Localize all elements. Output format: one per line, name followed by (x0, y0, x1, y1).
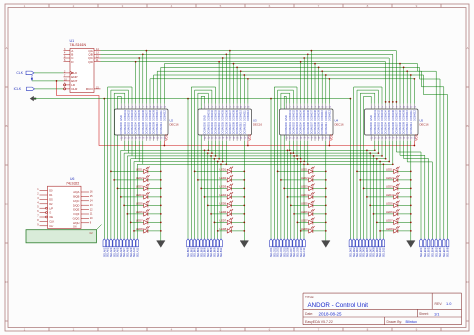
svg-text:DCBA0006: DCBA0006 (392, 121, 395, 134)
svg-text:GND: GND (119, 115, 123, 121)
svg-text:LED5: LED5 (136, 202, 143, 206)
LED LED4 (120, 192, 162, 199)
LED LED8 (133, 226, 162, 233)
svg-text:LED3: LED3 (136, 185, 143, 189)
svg-text:LED4: LED4 (136, 193, 143, 197)
svg-text:DCBA0007: DCBA0007 (229, 121, 232, 134)
svg-text:DS: DS (49, 198, 53, 202)
svg-text:DCBA005: DCBA005 (388, 110, 391, 121)
svg-text:DCBA0002: DCBA0002 (377, 121, 380, 134)
svg-text:LED4: LED4 (386, 193, 393, 197)
svg-text:LED7: LED7 (386, 219, 393, 223)
svg-text:GND: GND (203, 115, 207, 121)
ground group 2 (240, 241, 249, 248)
decoder IC U2 DEC16 (115, 104, 179, 141)
svg-text:DCBA0009: DCBA0009 (236, 121, 239, 134)
LED LED12 (204, 192, 246, 199)
svg-text:DCBA011: DCBA011 (410, 110, 413, 121)
LED LED24 (300, 226, 327, 233)
svg-text:DCBA005: DCBA005 (138, 110, 141, 121)
wire harness group 3 (271, 87, 326, 241)
svg-text:SELE05: SELE05 (434, 247, 438, 257)
decoder IC U3 DEC16 (198, 104, 262, 141)
svg-text:SELC11: SELC11 (302, 247, 306, 257)
wire stub at resistor block (96, 225, 101, 230)
LED LED15 (214, 218, 246, 225)
svg-text:LED7: LED7 (219, 219, 226, 223)
svg-text:DCBA0000: DCBA0000 (204, 121, 207, 134)
svg-text:B: B (466, 124, 468, 128)
svg-text:LED8: LED8 (136, 227, 143, 231)
svg-text:DCBA009: DCBA009 (153, 110, 156, 121)
power flag +5V (30, 75, 34, 81)
svg-text:DCBA0001: DCBA0001 (374, 121, 377, 134)
decoder IC U4 DEC16 (280, 104, 344, 141)
svg-text:DCBA0010: DCBA0010 (406, 121, 409, 134)
svg-text:DCBA012: DCBA012 (163, 110, 166, 121)
LED LED16 (217, 226, 245, 233)
svg-text:LED5: LED5 (301, 202, 308, 206)
svg-text:H/QH: H/QH (73, 221, 80, 225)
svg-text:DCBA0008: DCBA0008 (399, 121, 402, 134)
svg-text:DCBA0011: DCBA0011 (325, 122, 328, 135)
svg-text:A: A (5, 46, 7, 50)
LED LED23 (297, 218, 327, 225)
svg-text:DCBA008: DCBA008 (314, 110, 317, 121)
title block (303, 293, 462, 325)
svg-text:DCBA0004: DCBA0004 (218, 121, 221, 134)
svg-text:DCBA0002: DCBA0002 (292, 121, 295, 134)
net flag ICLK (14, 87, 35, 91)
svg-text:LED1: LED1 (301, 168, 308, 172)
svg-text:DCBA002: DCBA002 (377, 110, 380, 121)
svg-text:DCBA0002: DCBA0002 (211, 121, 214, 134)
svg-text:Drawn By:: Drawn By: (387, 320, 403, 324)
svg-text:LED2: LED2 (386, 176, 393, 180)
svg-text:SELE03: SELE03 (427, 247, 431, 257)
svg-text:LED6: LED6 (301, 210, 308, 214)
net flags group 4 (349, 239, 386, 257)
port arrow IN (30, 96, 36, 101)
svg-text:DCBA0005: DCBA0005 (303, 121, 306, 134)
svg-text:D2: D2 (49, 202, 53, 206)
LED LED6 (127, 209, 162, 216)
svg-text:DCBA003: DCBA003 (131, 110, 134, 121)
LED LED29 (369, 201, 411, 208)
svg-text:LED5: LED5 (219, 202, 226, 206)
svg-text:G/QG: G/QG (73, 217, 80, 221)
svg-text:DCBA0009: DCBA0009 (153, 121, 156, 134)
svg-text:D/QD: D/QD (73, 203, 80, 207)
svg-text:U6: U6 (70, 177, 74, 181)
svg-text:DCBA0000: DCBA0000 (120, 121, 123, 134)
svg-text:DCBA012: DCBA012 (328, 110, 331, 121)
svg-text:VCC: VCC (414, 133, 418, 140)
LED LED14 (210, 209, 245, 216)
svg-text:DCBA002: DCBA002 (127, 110, 130, 121)
decoder IC U5 DEC16 (365, 104, 429, 141)
svg-text:VCC: VCC (164, 133, 168, 140)
svg-text:DCBA001: DCBA001 (124, 110, 127, 121)
svg-text:LED2: LED2 (219, 176, 226, 180)
svg-text:DCBA011: DCBA011 (160, 110, 163, 121)
svg-text:A: A (466, 46, 468, 50)
LED LED32 (379, 226, 411, 233)
LED LED13 (207, 201, 245, 208)
wire harness group 1 (104, 87, 161, 241)
svg-text:F/QF: F/QF (73, 212, 79, 216)
svg-text:DCBA0002: DCBA0002 (127, 121, 130, 134)
svg-text:DCBA003: DCBA003 (296, 110, 299, 121)
wire enable line from port (34, 98, 351, 100)
wire chained output band (121, 141, 394, 165)
svg-text:DCBA0000: DCBA0000 (370, 121, 373, 134)
svg-text:DCBA0006: DCBA0006 (142, 121, 145, 134)
svg-text:SELB11: SELB11 (219, 247, 223, 257)
svg-text:DCBA0003: DCBA0003 (215, 121, 218, 134)
svg-text:DEC16: DEC16 (170, 122, 179, 126)
svg-text:DCBA006: DCBA006 (225, 110, 228, 121)
svg-text:SELE06: SELE06 (438, 247, 442, 257)
svg-text:DCBA0008: DCBA0008 (314, 121, 317, 134)
svg-text:DCBA003: DCBA003 (381, 110, 384, 121)
svg-text:DCBA007: DCBA007 (229, 110, 232, 121)
svg-text:DCBA009: DCBA009 (403, 110, 406, 121)
svg-text:LED2: LED2 (136, 176, 143, 180)
svg-text:DCBA0005: DCBA0005 (388, 121, 391, 134)
svg-text:DCBA010: DCBA010 (406, 110, 409, 121)
svg-text:LED1: LED1 (386, 168, 393, 172)
svg-text:LED6: LED6 (386, 210, 393, 214)
LED LED3 (117, 184, 162, 191)
LED LED20 (287, 192, 327, 199)
LED LED17 (277, 167, 327, 174)
svg-text:LED3: LED3 (386, 185, 393, 189)
svg-text:Date:: Date: (305, 312, 313, 316)
ground group 3 (322, 241, 331, 248)
wire harness group 2 (188, 87, 244, 241)
svg-text:LED4: LED4 (301, 193, 308, 197)
svg-text:DCBA001: DCBA001 (207, 110, 210, 121)
LED LED11 (200, 184, 245, 191)
svg-text:LED8: LED8 (386, 227, 393, 231)
svg-text:LED3: LED3 (219, 185, 226, 189)
net flags group 3 (269, 239, 306, 257)
svg-text:REV:: REV: (435, 302, 443, 306)
svg-text:1/1: 1/1 (434, 311, 439, 316)
svg-text:DCBA007: DCBA007 (395, 110, 398, 121)
svg-text:LED6: LED6 (136, 210, 143, 214)
svg-text:DCBA0010: DCBA0010 (240, 121, 243, 134)
svg-text:VCC: VCC (248, 133, 252, 140)
svg-text:B: B (5, 124, 7, 128)
svg-text:A/QA: A/QA (73, 190, 79, 194)
LED LED31 (376, 218, 412, 225)
svg-text:CLR: CLR (71, 87, 78, 91)
svg-text:Blintux: Blintux (406, 320, 417, 324)
wire +5V to U1 pin ENT (32, 80, 64, 82)
svg-text:Sheet:: Sheet: (419, 312, 429, 316)
svg-text:SELE02: SELE02 (423, 247, 427, 257)
LED LED27 (363, 184, 412, 191)
svg-text:DCBA002: DCBA002 (211, 110, 214, 121)
svg-text:DCBA004: DCBA004 (218, 110, 221, 121)
svg-text:DCBA010: DCBA010 (156, 110, 159, 121)
svg-text:DCBA0003: DCBA0003 (296, 121, 299, 134)
svg-text:G: G (49, 211, 51, 215)
svg-text:DCBA0003: DCBA0003 (381, 121, 384, 134)
svg-text:DCBA0004: DCBA0004 (385, 121, 388, 134)
svg-text:DCBA0007: DCBA0007 (310, 121, 313, 134)
wire harness group 4 (350, 87, 432, 241)
svg-text:LED3: LED3 (301, 185, 308, 189)
resistor network green block (26, 230, 96, 243)
svg-text:RCO: RCO (86, 87, 93, 91)
svg-text:DCBA0009: DCBA0009 (318, 121, 321, 134)
wire ICLK flag to U1 pin CLR (35, 88, 64, 90)
svg-text:VCC: VCC (329, 133, 333, 140)
LED LED19 (283, 184, 326, 191)
svg-text:SELE08: SELE08 (446, 247, 450, 257)
svg-text:DCBA011: DCBA011 (243, 110, 246, 121)
svg-text:DCBA002: DCBA002 (292, 110, 295, 121)
svg-text:DCBA007: DCBA007 (310, 110, 313, 121)
svg-text:DCBA0000: DCBA0000 (285, 121, 288, 134)
svg-text:DEC16: DEC16 (335, 122, 344, 126)
LED LED18 (280, 175, 327, 182)
svg-text:DCBA006: DCBA006 (307, 110, 310, 121)
svg-text:LED2: LED2 (301, 176, 308, 180)
LED LED5 (123, 201, 161, 208)
svg-text:CLK: CLK (49, 220, 54, 224)
net flags group 5 (419, 239, 450, 257)
svg-text:DCBA0003: DCBA0003 (131, 121, 134, 134)
svg-text:DCBA0011: DCBA0011 (410, 122, 413, 135)
svg-text:DCBA0007: DCBA0007 (145, 121, 148, 134)
svg-text:DCBA0006: DCBA0006 (225, 121, 228, 134)
svg-text:DCBA009: DCBA009 (318, 110, 321, 121)
LED LED7 (130, 218, 162, 225)
wire VCC red rail (56, 80, 416, 146)
svg-text:DCBA010: DCBA010 (240, 110, 243, 121)
svg-text:DCBA001: DCBA001 (289, 110, 292, 121)
svg-text:DCBA004: DCBA004 (300, 110, 303, 121)
svg-text:LED1: LED1 (136, 168, 143, 172)
LED LED26 (359, 175, 411, 182)
svg-text:DCBA004: DCBA004 (135, 110, 138, 121)
svg-text:2018-08-25: 2018-08-25 (319, 311, 343, 316)
LED LED25 (356, 167, 412, 174)
svg-text:CLr: CLr (49, 224, 53, 228)
svg-text:DCBA012: DCBA012 (413, 110, 416, 121)
svg-text:DCBA005: DCBA005 (303, 110, 306, 121)
ground group 4 (407, 241, 416, 248)
svg-text:LED6: LED6 (219, 210, 226, 214)
net flags group 2 (186, 239, 223, 257)
svg-text:C/QC: C/QC (73, 199, 80, 203)
svg-text:LED8: LED8 (219, 227, 226, 231)
svg-text:EasyEDA V5.7.22: EasyEDA V5.7.22 (305, 320, 333, 324)
LED LED1 (110, 167, 162, 174)
svg-text:DCBA0010: DCBA0010 (321, 121, 324, 134)
LED LED30 (373, 209, 412, 216)
svg-text:GN: GN (73, 226, 77, 228)
svg-text:DCBA007: DCBA007 (145, 110, 148, 121)
net flag CLK (16, 71, 34, 75)
LED LED28 (366, 192, 412, 199)
svg-text:DCBA010: DCBA010 (321, 110, 324, 121)
svg-text:1.0: 1.0 (446, 301, 452, 306)
svg-text:QD: QD (88, 60, 93, 64)
svg-text:SELD11: SELD11 (382, 247, 386, 257)
svg-text:DCBA004: DCBA004 (385, 110, 388, 121)
svg-text:DCBA008: DCBA008 (399, 110, 402, 121)
svg-text:DCBA006: DCBA006 (142, 110, 145, 121)
svg-text:LED7: LED7 (301, 219, 308, 223)
svg-text:DCBA003: DCBA003 (215, 110, 218, 121)
LED LED22 (293, 209, 326, 216)
svg-text:D1: D1 (49, 193, 53, 197)
svg-text:DCBA0007: DCBA0007 (395, 121, 398, 134)
svg-text:DCBA0005: DCBA0005 (138, 121, 141, 134)
svg-text:DCBA0011: DCBA0011 (243, 122, 246, 135)
svg-text:B/QB: B/QB (73, 195, 79, 199)
svg-text:E/QE: E/QE (73, 208, 79, 212)
svg-text:DCBA008: DCBA008 (233, 110, 236, 121)
svg-text:SELE07: SELE07 (442, 247, 446, 257)
svg-text:CLK: CLK (16, 71, 23, 75)
LED LED10 (197, 175, 245, 182)
wire QA..QD output bus (101, 50, 398, 104)
svg-text:DCBA001: DCBA001 (374, 110, 377, 121)
LED LED21 (290, 201, 327, 208)
svg-text:DCBA0010: DCBA0010 (156, 121, 159, 134)
svg-text:DCBA0001: DCBA0001 (289, 121, 292, 134)
svg-text:DCBA0008: DCBA0008 (233, 121, 236, 134)
wire cascade bus between decoders (150, 63, 448, 239)
svg-text:DCBA0008: DCBA0008 (149, 121, 152, 134)
IC U6 74LS322 (37, 177, 93, 229)
svg-text:SELA11: SELA11 (135, 247, 139, 257)
svg-text:SELE01: SELE01 (419, 247, 423, 257)
svg-text:DCBA008: DCBA008 (149, 110, 152, 121)
svg-text:74LS161N: 74LS161N (70, 43, 87, 47)
LED LED2 (113, 175, 161, 182)
svg-text:DEC16: DEC16 (420, 122, 429, 126)
svg-text:SELE04: SELE04 (431, 247, 435, 257)
svg-text:LED1: LED1 (219, 168, 226, 172)
svg-text:L/P: L/P (49, 206, 53, 210)
svg-text:ANDOR - Control Unit: ANDOR - Control Unit (308, 302, 369, 309)
svg-text:DCBA0004: DCBA0004 (300, 121, 303, 134)
svg-text:DCBA009: DCBA009 (236, 110, 239, 121)
svg-text:DCBA011: DCBA011 (325, 110, 328, 121)
op IC U1 74LS161N counter (64, 39, 101, 93)
svg-text:GND: GND (284, 115, 288, 121)
svg-text:LED8: LED8 (301, 227, 308, 231)
LED LED9 (194, 167, 245, 174)
svg-text:DCBA0005: DCBA0005 (222, 121, 225, 134)
svg-text:DCBA006: DCBA006 (392, 110, 395, 121)
svg-text:DCBA0006: DCBA0006 (307, 121, 310, 134)
svg-text:DCBA0001: DCBA0001 (124, 121, 127, 134)
wire CLK flag to U1 pin CLK (34, 72, 64, 74)
svg-text:OE: OE (49, 215, 53, 219)
svg-text:74LS322: 74LS322 (66, 181, 79, 185)
svg-text:DCBA0009: DCBA0009 (403, 121, 406, 134)
ground group 1 (157, 241, 166, 248)
svg-text:DCBA0011: DCBA0011 (160, 122, 163, 135)
svg-text:DCBA012: DCBA012 (247, 110, 250, 121)
svg-text:DCBA0004: DCBA0004 (135, 121, 138, 134)
svg-text:DEC16: DEC16 (253, 122, 262, 126)
svg-text:LED7: LED7 (136, 219, 143, 223)
svg-text:TITLE:: TITLE: (305, 295, 314, 299)
svg-text:DCBA0001: DCBA0001 (207, 121, 210, 134)
svg-text:ICLK: ICLK (14, 87, 22, 91)
net flags group 1 (102, 239, 139, 257)
svg-text:GND: GND (369, 115, 373, 121)
svg-text:DCBA005: DCBA005 (222, 110, 225, 121)
svg-text:LED4: LED4 (219, 193, 226, 197)
svg-text:LED5: LED5 (386, 202, 393, 206)
svg-text:D0: D0 (49, 189, 53, 193)
